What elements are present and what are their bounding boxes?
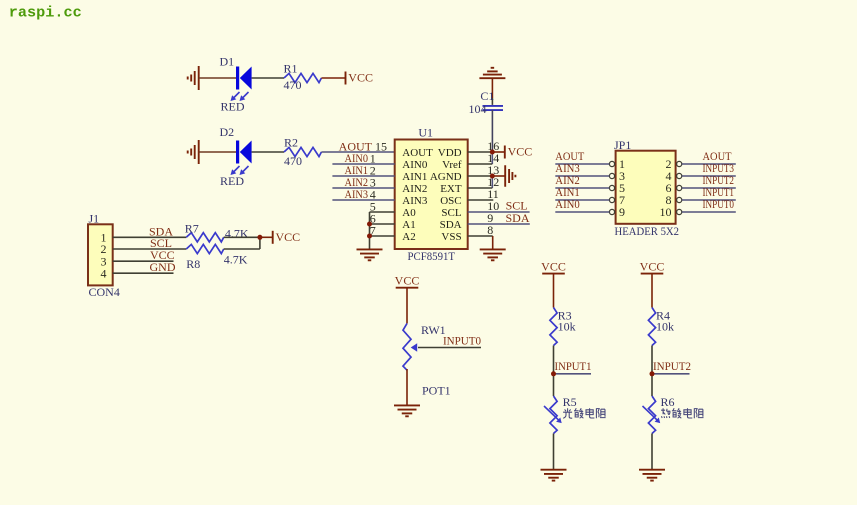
wire D1 to R1 [252, 77, 284, 79]
svg-text:A2: A2 [402, 231, 415, 243]
svg-text:Vref: Vref [442, 159, 462, 171]
svg-text:J1: J1 [89, 212, 100, 226]
svg-text:4.7K: 4.7K [224, 253, 248, 267]
power port VCC (R4) [641, 273, 664, 275]
svg-text:VDD: VDD [438, 147, 462, 159]
wire JP1 left pin 5 [555, 187, 609, 189]
svg-text:VCC: VCC [395, 274, 420, 288]
thermistor R6 [648, 396, 655, 434]
svg-text:VSS: VSS [441, 231, 461, 243]
svg-text:JP1: JP1 [614, 138, 631, 152]
wire Vref to VDD node [491, 152, 493, 164]
resistor R7 [186, 233, 223, 242]
JP1 left pin circle 3 [609, 173, 614, 178]
svg-text:AIN3: AIN3 [402, 195, 428, 207]
wire stub net INPUT2 [652, 373, 690, 375]
resistor R1 [284, 73, 321, 82]
svg-text:POT1: POT1 [422, 384, 451, 398]
JP1 right pin circle 2 [677, 161, 682, 166]
wire R8 right [224, 248, 260, 250]
wire junction to VCC port [260, 236, 272, 238]
JP1 left pin circle 1 [609, 161, 614, 166]
junction A1 [367, 222, 372, 227]
power port VCC (U1 VDD) [504, 146, 506, 159]
wire net AIN2 to U1 pin3 [332, 187, 394, 189]
svg-text:RED: RED [220, 174, 244, 188]
LED D2 emission arrows [233, 166, 240, 173]
svg-text:10k: 10k [656, 319, 674, 333]
LED D1 emission arrows [233, 92, 240, 99]
resistor R4 [648, 308, 655, 346]
svg-text:AOUT: AOUT [402, 147, 433, 159]
svg-text:AIN2: AIN2 [402, 183, 427, 195]
svg-text:CON4: CON4 [89, 285, 120, 299]
ground (POT1) [394, 404, 420, 406]
wire R3 to R5 [553, 346, 555, 397]
svg-text:D2: D2 [220, 125, 235, 139]
LED D1 [236, 67, 239, 90]
value 热敏电阻 (R6 thermistor) [661, 408, 670, 418]
LED D2 [236, 141, 239, 164]
wire EXT to AGND node [491, 176, 493, 188]
svg-text:SCL: SCL [441, 207, 461, 219]
junction INPUT2 [650, 371, 655, 376]
svg-text:PCF8591T: PCF8591T [408, 249, 456, 263]
connector J1 body [88, 224, 113, 285]
svg-text:EXT: EXT [440, 183, 462, 195]
svg-text:U1: U1 [418, 126, 433, 140]
svg-text:A1: A1 [402, 219, 415, 231]
wire R2 to U1 pin15 (net AOUT) [321, 151, 395, 153]
svg-text:AIN3: AIN3 [345, 187, 369, 201]
svg-text:VCC: VCC [640, 259, 665, 273]
op IC U1 body [395, 140, 468, 250]
wire net AIN1 to U1 pin2 [332, 175, 394, 177]
wire R7 to VCC junction [224, 236, 260, 238]
svg-text:HEADER 5X2: HEADER 5X2 [615, 224, 680, 238]
ground (AGND, right-facing) [504, 165, 506, 187]
ground (R6) [639, 469, 665, 471]
wire stub net INPUT1 [554, 373, 592, 375]
svg-text:9: 9 [619, 205, 625, 219]
svg-text:4: 4 [101, 266, 107, 280]
RW1 wiper arrow [411, 343, 418, 352]
wire AGND to ground [492, 175, 505, 177]
svg-text:104: 104 [469, 102, 487, 116]
wire ground to C1 [491, 78, 493, 98]
wire VCC to RW1 [406, 288, 408, 324]
JP1 left pin circle 9 [609, 209, 614, 214]
svg-text:R7: R7 [185, 221, 199, 235]
wire JP1 right pin 2 [682, 163, 736, 165]
wire U1 pin9 net SDA [468, 223, 530, 225]
wire net AIN3 to U1 pin4 [332, 199, 394, 201]
wire JP1 left pin 7 [555, 199, 609, 201]
svg-text:AIN0: AIN0 [555, 197, 580, 211]
photoresistor R5 [550, 396, 557, 434]
wire JP1 right pin 8 [682, 199, 736, 201]
svg-text:D1: D1 [220, 55, 235, 69]
svg-text:INPUT1: INPUT1 [555, 359, 592, 373]
JP1 left pin circle 7 [609, 197, 614, 202]
svg-text:INPUT0: INPUT0 [703, 197, 735, 211]
wire U1 pin10 net SCL [468, 211, 530, 213]
wire R5 to ground [553, 434, 555, 470]
svg-text:10: 10 [660, 205, 672, 219]
svg-text:R8: R8 [186, 257, 200, 271]
wire JP1 right pin 4 [682, 175, 736, 177]
wire junction to VCC port [492, 151, 504, 153]
wire J1 pin2 net SCL [113, 248, 187, 250]
wire R1 to VCC [321, 77, 345, 79]
svg-text:SDA: SDA [440, 219, 462, 231]
svg-text:SDA: SDA [506, 211, 530, 225]
wire JP1 right pin 10 [682, 211, 736, 213]
wire VCC to R4 [651, 274, 653, 308]
potentiometer RW1 resistor [403, 323, 411, 370]
JP1 right pin circle 10 [677, 209, 682, 214]
svg-text:VCC: VCC [508, 145, 533, 159]
svg-text:R6: R6 [661, 395, 675, 409]
svg-text:A0: A0 [402, 207, 416, 219]
wire R8 up to junction [259, 237, 261, 249]
svg-text:4.7K: 4.7K [225, 226, 249, 240]
wire C1 to VDD node [491, 110, 493, 152]
svg-text:OSC: OSC [440, 195, 461, 207]
svg-text:AIN0: AIN0 [402, 159, 428, 171]
svg-text:AGND: AGND [430, 171, 462, 183]
junction INPUT1 [551, 371, 556, 376]
svg-text:raspi.cc: raspi.cc [9, 3, 82, 21]
svg-text:INPUT2: INPUT2 [653, 359, 691, 373]
JP1 left pin circle 5 [609, 185, 614, 190]
junction A2 [367, 234, 372, 239]
wire JP1 left pin 9 [555, 211, 609, 213]
wire R6 to ground [651, 434, 653, 470]
junction VDD node [490, 150, 495, 155]
wire A0-A1-A2 vertical bus to ground [369, 212, 371, 249]
wire U1 pin13 AGND [468, 175, 493, 177]
svg-text:15: 15 [375, 140, 387, 154]
capacitor C1 [483, 105, 504, 107]
svg-text:VCC: VCC [348, 71, 373, 85]
wire U1 pin11 OSC stub [468, 199, 494, 201]
svg-text:R5: R5 [563, 395, 577, 409]
svg-text:470: 470 [284, 78, 302, 92]
wire JP1 right pin 6 [682, 187, 736, 189]
svg-text:8: 8 [487, 223, 493, 237]
wire wiper net INPUT0 [418, 347, 481, 349]
wire VSS down to ground [492, 236, 494, 249]
svg-text:VCC: VCC [276, 230, 301, 244]
wire J1 pin3 net VCC [113, 260, 174, 262]
power port VCC (RW1) [396, 287, 419, 289]
wire U1 pin16 VDD to VCC [468, 151, 493, 153]
svg-text:INPUT0: INPUT0 [443, 334, 481, 348]
svg-text:R1: R1 [284, 62, 298, 76]
wire ground to D1 [199, 77, 236, 79]
ground (A0/A1/A2) [357, 248, 383, 250]
ground (R5) [541, 469, 567, 471]
junction AGND node [490, 174, 495, 179]
connector JP1 body [616, 151, 676, 224]
value 光敏电阻 (R5 photoresistor) [563, 408, 572, 418]
svg-text:RED: RED [221, 100, 245, 114]
resistor R8 [186, 244, 223, 253]
power port VCC (R3) [542, 273, 565, 275]
JP1 right pin circle 8 [677, 197, 682, 202]
wire JP1 left pin 1 [555, 163, 609, 165]
svg-text:C1: C1 [480, 89, 494, 103]
ground (left of D2) [198, 140, 200, 164]
JP1 right pin circle 4 [677, 173, 682, 178]
svg-text:GND: GND [150, 260, 176, 274]
wire VCC to R3 [553, 274, 555, 308]
wire J1 pin4 net GND [113, 272, 174, 274]
wire ground to D2 [199, 151, 236, 153]
ground (above C1, flipped earth) [479, 77, 505, 79]
svg-text:470: 470 [284, 154, 302, 168]
svg-text:RW1: RW1 [421, 323, 446, 337]
JP1 right pin circle 6 [677, 185, 682, 190]
resistor R2 [284, 147, 321, 156]
svg-text:10k: 10k [558, 319, 576, 333]
junction R7/R8 VCC [257, 235, 262, 240]
svg-text:AIN1: AIN1 [402, 171, 427, 183]
wire U1 pin8 VSS [468, 235, 493, 237]
wire U1 pin5 A0 [370, 211, 395, 213]
wire net AIN0 to U1 pin1 [332, 163, 394, 165]
svg-text:R2: R2 [284, 136, 298, 150]
wire RW1 to ground [406, 369, 408, 405]
power port VCC (J1 pullups) [272, 231, 274, 244]
power port VCC (R1) [345, 72, 347, 85]
wire R4 to R6 [651, 346, 653, 397]
wire JP1 left pin 3 [555, 175, 609, 177]
resistor R3 [550, 308, 557, 346]
wire U1 pin6 A1 [370, 223, 395, 225]
wire J1 pin1 net SDA [113, 236, 187, 238]
wire D2 to R2 [252, 151, 284, 153]
ground (left of D1) [198, 66, 200, 90]
svg-text:VCC: VCC [541, 259, 566, 273]
wire U1 pin7 A2 [370, 235, 395, 237]
ground (U1 VSS) [480, 248, 506, 250]
